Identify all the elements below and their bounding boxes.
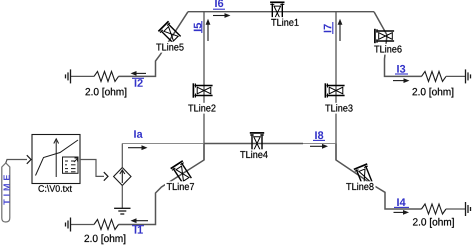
resistor R1 2.0 ohm (bottom left): [94, 220, 119, 230]
current source arrow: [120, 170, 125, 183]
arrowhead into box west input: [27, 155, 31, 164]
probe arrow I6: [213, 13, 231, 18]
label C:\V0.txt: [39, 185, 72, 192]
wire: resistor R1 left lead: [71, 224, 94, 226]
transmission line TLine5: [158, 21, 182, 45]
probe arrow I3: [393, 78, 410, 83]
TIME source text: [4, 175, 10, 205]
label TLine5: [155, 42, 186, 53]
label TLine1: [270, 17, 301, 28]
resistor R3 2.0 ohm (top right): [422, 71, 447, 81]
probe arrow I5: [206, 19, 211, 41]
transmission line TLine3: [325, 83, 344, 97]
transmission line TLine4: [250, 133, 264, 152]
probe label I2: [132, 78, 144, 87]
wire: middle bus right thin segment: [303, 143, 336, 145]
box inner file icon: [63, 157, 79, 173]
box inner axis with arrow: [54, 139, 59, 177]
ground (bottom left): [66, 218, 71, 232]
controlled current source diamond: [114, 168, 131, 186]
transmission line TLine1: [270, 2, 284, 21]
TACS source box C:\V0.txt: [32, 135, 80, 184]
wire: TLine6 diagonal branch: [374, 12, 422, 77]
wire: resistor R2 left lead: [71, 75, 94, 77]
probe label I6: [213, 0, 225, 9]
label TLine6: [373, 44, 404, 55]
ground (below current source): [114, 208, 130, 214]
probe arrow Ia: [128, 145, 148, 150]
wire: middle bus TLine4 body: [204, 143, 303, 145]
wire: resistor R3 right lead: [446, 75, 465, 77]
resistor R2 2.0 ohm (top left): [94, 71, 119, 81]
wire: top bus node I6: [188, 11, 374, 13]
probe arrow I8: [310, 144, 328, 149]
probe label Ia: [134, 130, 143, 138]
wire: TIME source to box: [6, 160, 27, 164]
transmission line TLine7: [171, 161, 194, 185]
wire: resistor R4 right lead: [446, 208, 465, 210]
ground (bottom right): [466, 202, 471, 216]
transmission line TLine8: [354, 164, 375, 187]
probe label I8: [313, 131, 325, 140]
wire: TLine3 vertical branch: [335, 12, 337, 160]
transmission line TLine2: [193, 83, 212, 97]
value label 2.0 ohm (bottom left): [85, 234, 126, 244]
wire: TLine8 diagonal branch: [336, 144, 422, 210]
probe label I4: [394, 198, 409, 207]
wire: current source to ground: [121, 186, 123, 209]
probe label I5: [194, 21, 202, 33]
TIME source symbol: [2, 163, 10, 222]
probe label I3: [395, 65, 408, 74]
wire: current source to middle bus: [121, 144, 123, 168]
value label 2.0 ohm (top right): [413, 88, 454, 98]
probe arrow I1: [131, 218, 149, 223]
value label 2.0 ohm (bottom right): [413, 218, 454, 228]
wire: TLine7 diagonal branch: [119, 144, 205, 225]
label TLine4: [239, 149, 270, 160]
wire: TLine5 diagonal branch: [119, 12, 189, 77]
probe arrow I4: [394, 210, 410, 215]
wire: middle bus left thin segment: [122, 143, 204, 145]
file icon output arrow: [74, 158, 78, 162]
ground (top left): [66, 69, 71, 83]
file icon text lines: [65, 161, 76, 172]
wire: TLine2 vertical branch: [203, 12, 205, 160]
resistor R4 2.0 ohm (bottom right): [422, 204, 447, 214]
box inner characteristic curve: [36, 140, 79, 176]
probe label I1: [132, 226, 144, 234]
label TLine8: [345, 181, 376, 192]
probe arrow I7: [338, 19, 343, 41]
label TLine2: [187, 103, 218, 114]
label TLine3: [324, 103, 355, 114]
ground (top right): [466, 69, 471, 83]
probe label I7: [324, 22, 333, 34]
arrowhead into current source: [104, 172, 108, 181]
transmission line TLine6: [375, 29, 394, 43]
probe arrow I2: [131, 71, 147, 76]
wire: box output to current source: [80, 160, 104, 177]
value label 2.0 ohm (top left): [86, 88, 127, 98]
label TLine7: [165, 181, 196, 192]
